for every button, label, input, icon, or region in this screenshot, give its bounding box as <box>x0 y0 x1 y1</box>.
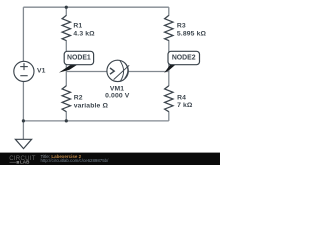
footer bar <box>0 153 220 165</box>
svg-text:R3: R3 <box>177 23 186 30</box>
voltmeter VM1 <box>107 60 128 81</box>
svg-text:LAB: LAB <box>20 160 30 165</box>
ground <box>15 139 31 148</box>
svg-text:R4: R4 <box>177 95 186 102</box>
wire NODE1 to R2 <box>65 72 67 87</box>
svg-text:variable Ω: variable Ω <box>74 102 109 109</box>
svg-text:R1: R1 <box>73 23 82 30</box>
wire R1 branch upper lead <box>65 7 67 16</box>
svg-text:NODE2: NODE2 <box>172 55 196 62</box>
junction dot top R1 <box>65 6 68 9</box>
wire VM1 to NODE2 <box>128 71 169 73</box>
svg-text:5.895 kΩ: 5.895 kΩ <box>177 30 207 37</box>
svg-text:NODE1: NODE1 <box>67 55 91 62</box>
node NODE2 flag <box>164 64 176 73</box>
voltage source V1 <box>14 61 34 81</box>
wire R4 to bottom <box>168 111 170 121</box>
node NODE2 box <box>168 51 200 64</box>
resistor R2 <box>62 86 70 112</box>
wire left vertical upper (top to V1) <box>22 7 24 62</box>
wire R2 to bottom <box>65 111 67 121</box>
wire NODE1 to VM1 <box>66 71 107 73</box>
svg-text:VM1: VM1 <box>110 85 124 92</box>
wire left vertical lower (V1 to bottom) <box>22 81 24 121</box>
wire top horizontal <box>23 6 168 8</box>
svg-text:R2: R2 <box>74 94 83 101</box>
wire bottom horizontal <box>23 120 168 122</box>
wire NODE2 to R4 <box>168 72 170 87</box>
svg-text:7 kΩ: 7 kΩ <box>177 102 193 109</box>
node NODE1 flag <box>59 64 78 72</box>
resistor R4 <box>165 86 173 112</box>
resistor R3 <box>165 15 173 40</box>
wire R3 to NODE2 <box>168 40 170 71</box>
svg-text:http://circuitlab.com/c/ce6289: http://circuitlab.com/c/ce6289875b/ <box>41 158 110 163</box>
junction dot ground <box>22 119 25 122</box>
ground stem wire <box>22 121 24 139</box>
junction dot bottom R2 <box>65 119 68 122</box>
wire R1 to NODE1 <box>65 40 67 71</box>
resistor R1 <box>62 15 70 40</box>
node NODE1 box <box>64 51 93 64</box>
wire R3 branch upper lead <box>168 7 170 16</box>
svg-text:4.3 kΩ: 4.3 kΩ <box>73 30 95 37</box>
svg-text:V1: V1 <box>37 68 46 75</box>
svg-text:0.000 V: 0.000 V <box>105 93 130 100</box>
